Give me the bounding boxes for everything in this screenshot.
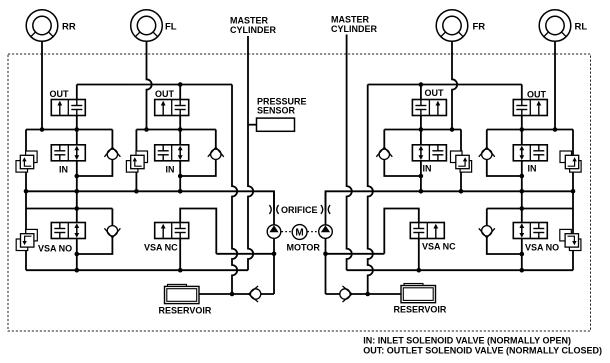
svg-text:CYLINDER: CYLINDER [331, 24, 378, 34]
svg-text:SENSOR: SENSOR [257, 105, 296, 115]
svg-text:OUT: OUT [425, 88, 445, 98]
svg-text:MOTOR: MOTOR [287, 243, 321, 253]
svg-text:IN: IN [59, 164, 68, 174]
svg-text:OUT: OUT [527, 90, 547, 100]
svg-text:RESERVOIR: RESERVOIR [394, 305, 447, 315]
svg-text:IN: IN [528, 164, 537, 174]
svg-text:IN: INLET SOLENOID VALVE (NORM: IN: INLET SOLENOID VALVE (NORMALLY OPEN) [363, 336, 571, 346]
svg-text:RL: RL [575, 22, 588, 33]
svg-text:IN: IN [423, 164, 432, 174]
svg-text:VSA NO: VSA NO [525, 243, 559, 253]
svg-text:MASTER: MASTER [230, 16, 269, 26]
svg-text:VSA NC: VSA NC [144, 243, 178, 253]
svg-text:OUT: OUT [50, 89, 70, 99]
svg-text:OUT: OUT [155, 89, 175, 99]
svg-text:IN: IN [166, 164, 175, 174]
svg-text:VSA NC: VSA NC [422, 242, 456, 252]
svg-text:VSA NO: VSA NO [38, 244, 72, 254]
svg-text:RESERVOIR: RESERVOIR [159, 306, 212, 316]
svg-text:MASTER: MASTER [331, 15, 370, 25]
svg-text:RR: RR [62, 22, 76, 33]
svg-text:FR: FR [473, 22, 486, 33]
svg-text:M: M [295, 228, 303, 239]
svg-text:ORIFICE: ORIFICE [281, 205, 318, 215]
svg-text:FL: FL [165, 22, 177, 33]
svg-text:OUT: OUTLET SOLENOID VALVE (NO: OUT: OUTLET SOLENOID VALVE (NORMALLY CLO… [363, 345, 602, 355]
svg-text:CYLINDER: CYLINDER [230, 25, 277, 35]
